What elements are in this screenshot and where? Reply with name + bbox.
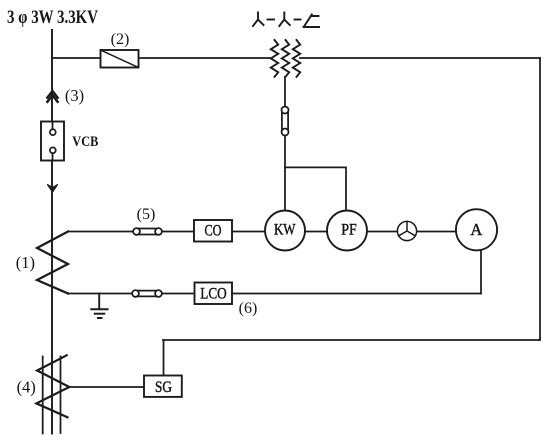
svg-text:3 φ 3W 3.3KV: 3 φ 3W 3.3KV — [7, 7, 98, 28]
wire riser LCO line to ammeter — [480, 251, 482, 294]
ground symbol — [91, 294, 107, 319]
fuse (5) tube fuse — [133, 228, 162, 235]
fuse tube on bottom line — [132, 290, 162, 297]
wire main bus vertical — [51, 30, 53, 434]
transformer PT bank zigzag windings — [271, 40, 300, 77]
rotor fan symbol — [397, 221, 416, 240]
svg-text:CO: CO — [205, 223, 222, 240]
svg-text:LCO: LCO — [200, 286, 227, 303]
wire PT secondary drop — [284, 77, 286, 211]
wire branch to PF meter — [285, 167, 346, 211]
svg-text:(6): (6) — [239, 300, 258, 317]
svg-text:(5): (5) — [137, 206, 156, 223]
arrow down solid on main bus — [47, 184, 58, 192]
svg-text:KW: KW — [274, 222, 296, 239]
meter PF — [327, 211, 367, 251]
svg-text:(4): (4) — [17, 378, 36, 397]
wire to SG — [69, 386, 144, 388]
svg-text:(2): (2) — [111, 31, 130, 48]
wire SG riser — [163, 340, 165, 376]
wire secondary top to meters — [68, 231, 456, 233]
arrow (3) double chevron up — [47, 91, 57, 102]
relay LCO box — [195, 283, 233, 305]
svg-text:(3): (3) — [65, 86, 84, 105]
fuse vertical tube on PT secondary — [282, 107, 289, 136]
wire top horizontal feeder left segment — [52, 57, 272, 59]
wire right border return — [539, 58, 541, 340]
meter A ammeter — [456, 209, 497, 250]
svg-text:(1): (1) — [16, 253, 35, 272]
meter KW — [265, 211, 305, 251]
svg-text:SG: SG — [155, 379, 172, 396]
wire secondary bottom — [68, 293, 481, 295]
relay CO box — [194, 220, 232, 242]
winding (1) GPT primary zigzag — [37, 232, 68, 294]
svg-text:PF: PF — [341, 221, 357, 238]
wire top horizontal feeder right segment — [300, 57, 540, 59]
breaker VCB — [41, 122, 64, 161]
transformer (4) grounding zigzag windings — [36, 355, 69, 433]
relay SG box — [144, 376, 182, 397]
svg-text:A: A — [470, 220, 482, 239]
fuse (2) power fuse box — [101, 50, 139, 68]
svg-text:VCB: VCB — [72, 134, 98, 150]
label vector group Y-Y-open-delta — [253, 13, 319, 28]
wire bottom return — [163, 339, 540, 341]
